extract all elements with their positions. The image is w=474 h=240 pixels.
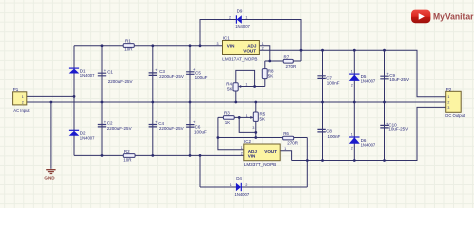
svg-text:1: 1: [351, 132, 353, 136]
svg-text:100nF: 100nF: [327, 80, 340, 85]
svg-text:IC1: IC1: [223, 36, 231, 41]
wire R5 top leg: [255, 102, 257, 112]
node top rail junctions: [101, 44, 202, 47]
wire ADJ riser: [259, 46, 269, 61]
wire R8 column: [264, 61, 266, 87]
svg-text:100nF: 100nF: [328, 134, 341, 139]
svg-text:D9: D9: [237, 9, 243, 14]
wire R6/D4 riser: [306, 138, 308, 188]
svg-text:2200uF-25V: 2200uF-25V: [159, 126, 184, 131]
capacitor C6: [186, 120, 207, 135]
ground symbol GND: [44, 170, 55, 181]
svg-text:C1: C1: [107, 70, 113, 75]
svg-text:2: 2: [351, 146, 353, 150]
resistor R1: [123, 39, 134, 52]
wire D5/D6 column: [353, 50, 355, 160]
svg-text:VIN: VIN: [227, 43, 235, 48]
svg-text:R2: R2: [124, 149, 130, 154]
node ground rail junctions: [50, 101, 386, 104]
op-amp U2 regulator IC2 LM337: [241, 139, 286, 167]
svg-text:10R: 10R: [123, 157, 132, 162]
svg-text:1N4007: 1N4007: [80, 73, 95, 78]
svg-text:1: 1: [230, 183, 232, 187]
svg-text:C4: C4: [158, 121, 164, 126]
potentiometer R4: [226, 81, 247, 91]
wire D4 row: [200, 186, 307, 188]
svg-text:1N4007: 1N4007: [235, 24, 250, 29]
svg-text:1: 1: [22, 95, 24, 99]
svg-text:2: 2: [229, 16, 231, 20]
wire negative output rail to P2 pin3: [292, 107, 446, 160]
wire C5/C6 column: [189, 46, 191, 156]
svg-text:VIN: VIN: [248, 154, 256, 159]
svg-text:R3: R3: [224, 111, 230, 116]
svg-text:R1: R1: [125, 39, 131, 44]
capacitor C8: [317, 129, 340, 139]
wire R4 top loop: [236, 70, 255, 86]
connector P2 DC Output: [445, 87, 466, 118]
svg-text:100uF: 100uF: [194, 130, 207, 135]
diode D5: [349, 70, 376, 88]
svg-text:10uF-25V: 10uF-25V: [388, 126, 408, 131]
svg-text:270R: 270R: [287, 140, 299, 145]
wire D4 left leg: [199, 155, 201, 187]
wire C1/C2 column: [101, 46, 103, 156]
svg-text:P1: P1: [13, 87, 19, 92]
wire R3 to IC2 ADJ: [218, 117, 244, 149]
wire R7 row: [265, 60, 301, 62]
svg-text:2: 2: [22, 101, 24, 105]
diode D9: [229, 9, 251, 30]
svg-text:10uF-25V: 10uF-25V: [389, 77, 409, 82]
node ADJ junction: [268, 60, 271, 63]
svg-text:3: 3: [217, 42, 219, 46]
diode D2: [69, 130, 95, 140]
svg-text:1N4007: 1N4007: [361, 143, 376, 148]
wire GND stem: [50, 102, 52, 169]
svg-text:1N4007: 1N4007: [361, 79, 376, 84]
capacitor C7: [317, 75, 339, 85]
node wiper junction: [253, 85, 256, 88]
svg-text:2200uF-25V: 2200uF-25V: [107, 126, 132, 131]
svg-text:270R: 270R: [286, 64, 298, 69]
wire R5 bottom loop: [239, 117, 256, 132]
svg-text:10R: 10R: [124, 47, 133, 52]
svg-text:1: 1: [284, 147, 286, 151]
capacitor C9: [380, 71, 409, 82]
svg-text:2: 2: [241, 152, 243, 156]
node negative input rail junctions: [101, 154, 202, 157]
svg-text:2200uF-25V: 2200uF-25V: [159, 74, 184, 79]
capacitor C2: [98, 120, 132, 132]
svg-text:1N4007: 1N4007: [80, 135, 95, 140]
resistor R6: [283, 131, 299, 145]
svg-text:DC Output: DC Output: [445, 113, 466, 118]
svg-text:2: 2: [447, 101, 449, 105]
wire ground rail: [27, 101, 446, 103]
wire top VIN rail: [74, 45, 223, 47]
node R3 wiper junction: [238, 116, 241, 119]
wire R4 wiper row: [242, 86, 265, 88]
capacitor C1: [98, 68, 133, 84]
capacitor C10: [380, 122, 408, 132]
wire AC upper from P1 pin1: [27, 95, 74, 97]
wire R4 bottom leg: [235, 91, 237, 102]
svg-text:C8: C8: [326, 129, 332, 134]
wire C9/C10 column: [384, 50, 386, 160]
wire C7/C8 column: [322, 50, 324, 160]
svg-text:IC2: IC2: [244, 139, 252, 144]
svg-text:1K: 1K: [225, 120, 231, 125]
svg-text:1: 1: [245, 83, 247, 87]
svg-text:R6: R6: [283, 131, 289, 136]
wire IC2 VOUT jog: [280, 151, 291, 161]
svg-text:+: +: [155, 67, 158, 72]
wire R5 bottom leg: [255, 121, 257, 137]
svg-text:3: 3: [252, 126, 254, 130]
svg-text:MyVanitar: MyVanitar: [433, 11, 474, 22]
diode D6: [349, 132, 376, 150]
potentiometer R5: [246, 112, 266, 130]
svg-text:P2: P2: [446, 87, 452, 92]
wire D9 branch: [200, 20, 301, 62]
resistor R7: [283, 54, 297, 68]
resistor R2: [123, 149, 135, 162]
svg-text:D4: D4: [236, 176, 242, 181]
node negative output rail junctions: [306, 159, 386, 162]
wire AC column (D1/D2): [73, 46, 75, 156]
capacitor C3: [149, 67, 184, 79]
svg-text:5K: 5K: [260, 117, 266, 122]
svg-text:AC Input: AC Input: [13, 108, 30, 113]
svg-text:100uF: 100uF: [195, 75, 208, 80]
node AC junction: [73, 95, 76, 98]
svg-text:1: 1: [447, 95, 449, 99]
svg-text:C2: C2: [107, 121, 113, 126]
svg-text:2: 2: [262, 47, 264, 51]
svg-text:LM317AT_NOPB: LM317AT_NOPB: [222, 56, 257, 61]
svg-text:1N4007: 1N4007: [235, 192, 250, 197]
svg-text:1: 1: [241, 146, 243, 150]
wire negative input rail: [74, 154, 244, 156]
svg-text:+: +: [104, 68, 107, 73]
MyVanitar YouTube logo: [411, 10, 474, 24]
svg-text:2: 2: [245, 183, 247, 187]
svg-text:5K: 5K: [227, 86, 233, 91]
svg-text:2: 2: [351, 83, 353, 87]
node VOUT rail junctions: [300, 49, 386, 52]
svg-text:5K: 5K: [268, 73, 274, 78]
op-amp U1 regulator IC1 LM317: [217, 36, 264, 62]
capacitor C4: [149, 120, 184, 132]
diode D1: [69, 68, 95, 78]
resistor R8: [262, 68, 274, 78]
diode D4: [230, 176, 250, 197]
svg-text:LM337T_NOPB: LM337T_NOPB: [244, 162, 276, 167]
svg-text:2200uF-25V: 2200uF-25V: [108, 79, 133, 84]
svg-text:1: 1: [246, 114, 248, 118]
svg-text:R7: R7: [284, 54, 290, 59]
wire R3 row: [218, 116, 239, 118]
svg-text:1: 1: [245, 16, 247, 20]
resistor R3: [223, 111, 234, 125]
wire VOUT rail to P2 pin1: [259, 50, 445, 97]
svg-text:3: 3: [447, 106, 449, 110]
svg-text:1: 1: [351, 70, 353, 74]
wire C3/C4 column: [152, 46, 154, 156]
capacitor C5: [186, 67, 208, 80]
svg-text:VOUT: VOUT: [243, 49, 256, 54]
svg-text:VOUT: VOUT: [264, 149, 277, 154]
wire R5 wiper row: [239, 116, 253, 118]
wire R6 row: [218, 137, 307, 139]
svg-text:GND: GND: [44, 175, 55, 180]
connector P1 AC Input: [13, 87, 31, 113]
node R5 loop junction: [254, 131, 257, 134]
svg-text:1: 1: [262, 42, 264, 46]
